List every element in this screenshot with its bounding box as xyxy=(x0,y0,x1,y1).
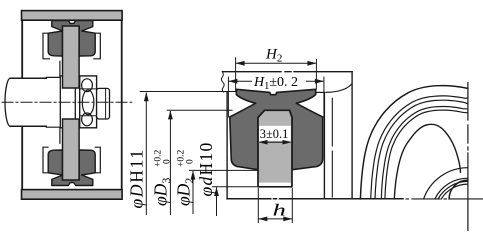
seal core xyxy=(258,110,292,187)
dim phi D3 line+arrow xyxy=(169,111,171,215)
hex nut xyxy=(80,76,97,128)
cover outer right edge xyxy=(351,72,353,199)
housing bottom plate xyxy=(22,190,123,200)
dim phi d extension line xyxy=(212,186,258,188)
dim phi D H11 line+arrow xyxy=(145,93,147,216)
h dimension line xyxy=(258,218,292,220)
H2 extension lines xyxy=(236,57,317,91)
spoke window xyxy=(394,124,460,199)
hub bore arc xyxy=(449,180,468,199)
housing outer box xyxy=(21,20,23,189)
rim arc 1 xyxy=(360,86,468,199)
svg-text:H1±0. 2: H1±0. 2 xyxy=(253,75,298,92)
dim phi D H11 extension line xyxy=(140,91,237,93)
dim phi D3 extension line xyxy=(167,109,233,111)
hub boss arc xyxy=(424,168,468,199)
rim arc 4 xyxy=(381,107,468,199)
sleeve step bottom xyxy=(46,126,60,143)
seal dark body xyxy=(230,89,323,169)
svg-text:φDH11: φDH11 xyxy=(127,148,147,208)
washer at shaft end xyxy=(60,76,75,128)
seal holder brackets bottom xyxy=(43,147,50,173)
hub outer arcs xyxy=(435,178,468,199)
rim arc 2 xyxy=(371,96,468,199)
stem bottom white strip xyxy=(259,183,291,186)
bottom seal core/stem xyxy=(63,119,80,180)
shaft centerline xyxy=(2,101,132,103)
top seal core/stem xyxy=(63,26,80,88)
svg-text:0: 0 xyxy=(186,159,196,164)
shaft centerline right xyxy=(406,198,483,200)
housing top plate xyxy=(22,11,123,21)
svg-text:0: 0 xyxy=(163,159,173,164)
top seal dark body xyxy=(48,21,95,57)
bottom seal dark body xyxy=(48,150,95,186)
rim arc 3 xyxy=(375,100,468,199)
housing right wall xyxy=(121,20,123,189)
shaft xyxy=(5,78,16,126)
sleeve step top xyxy=(46,61,60,78)
break line xyxy=(221,72,224,92)
groove right wall xyxy=(323,92,325,198)
shaft baseline xyxy=(227,198,403,200)
dim phi d line+arrow xyxy=(216,187,218,216)
cover corner fillet xyxy=(326,85,351,93)
H2 dimension line xyxy=(236,62,317,64)
groove bottom right xyxy=(316,91,325,93)
svg-text:h: h xyxy=(273,200,286,219)
H1 dimension line xyxy=(228,80,324,82)
H1 extension lines xyxy=(228,77,324,118)
cover top face line xyxy=(223,71,353,73)
rim arc 5 xyxy=(385,110,468,199)
h extension lines xyxy=(258,188,292,223)
svg-text:φdH10: φdH10 xyxy=(196,141,216,196)
3±0.1 arrows xyxy=(259,140,292,145)
dim phi D2 line+arrow xyxy=(192,171,194,214)
3±0.1 white band xyxy=(259,126,291,141)
groove left wall xyxy=(226,92,228,199)
wheel vertical centerline xyxy=(467,83,469,231)
cover inner line xyxy=(331,98,333,197)
seal holder brackets top xyxy=(43,33,50,59)
bolt tip xyxy=(97,88,110,119)
dim phi D2 extension line xyxy=(189,169,258,171)
svg-text:3±0.1: 3±0.1 xyxy=(260,127,288,141)
